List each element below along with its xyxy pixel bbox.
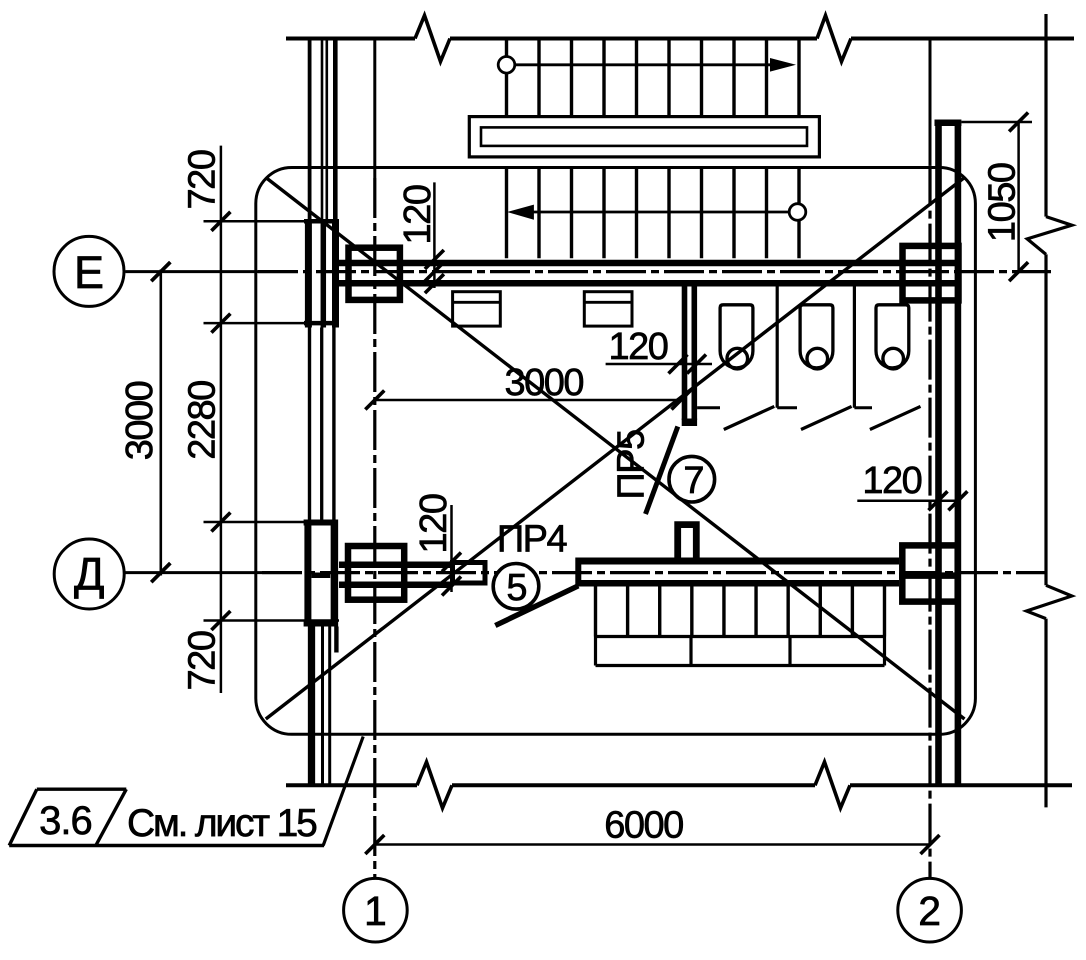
grid line 1 centerline — [373, 39, 376, 878]
svg-text:3000: 3000 — [505, 362, 584, 404]
column at D/2 — [902, 545, 957, 601]
dimension 1050 tick bottom — [1009, 262, 1028, 281]
svg-text:720: 720 — [182, 631, 224, 690]
dimension text 3000 (left) — [119, 381, 161, 460]
label PR5 — [611, 430, 653, 500]
stair landing slab (inner) — [481, 127, 807, 145]
stall divider 1 — [776, 287, 779, 408]
label PR4 — [497, 519, 568, 561]
svg-text:ПР5: ПР5 — [611, 430, 653, 500]
dimension 120 (right) line — [857, 500, 958, 503]
dimension 120 (bottom) tick 2 — [442, 577, 461, 596]
partition PR5: bottom end cap — [682, 419, 697, 427]
svg-text:1050: 1050 — [982, 163, 1024, 242]
dimension text 720 (top) — [182, 150, 224, 209]
stall front line segment 3 — [854, 406, 872, 409]
stair flight 2 direction arrow — [507, 204, 806, 221]
svg-text:5: 5 — [506, 567, 527, 609]
stall divider 2 — [853, 287, 856, 408]
grid line 2 centerline — [929, 38, 932, 878]
dimension text 120 (PR5) — [608, 326, 667, 368]
wall: pier cap at E band top — [304, 219, 339, 224]
wall: axis E interior wall top face line — [339, 260, 961, 267]
dimension 120 (top) line — [433, 182, 436, 288]
extension line y=522 — [204, 521, 333, 524]
column at D/1 — [348, 546, 404, 600]
edge: right fragment boundary line with break symbols — [1027, 14, 1072, 807]
dimension 3000 (left vertical) line — [160, 270, 163, 576]
tick left chain 2 — [211, 314, 230, 333]
dimension text 2280 — [182, 381, 224, 460]
panel: diagonal 1 — [266, 178, 965, 720]
dimension text 3000 (horizontal) — [505, 362, 584, 404]
svg-text:2280: 2280 — [182, 381, 224, 460]
dimension 120 (bottom) tick 1 — [442, 553, 461, 572]
svg-text:ПР4: ПР4 — [497, 519, 568, 561]
wall: left wall middle layer lines — [322, 39, 330, 786]
svg-text:120: 120 — [413, 494, 455, 553]
svg-text:2: 2 — [918, 888, 941, 934]
dimension 3000 (horizontal) tick right — [672, 391, 691, 410]
dimension 1050 line — [1017, 121, 1020, 272]
column at E/2 — [903, 246, 959, 301]
column at E/1 — [349, 248, 400, 300]
partition PR4: bottom face line — [578, 580, 899, 587]
dimension text 1050 — [982, 163, 1024, 242]
stair flight 2 treads — [507, 168, 800, 259]
wall: right wall inner line — [935, 123, 942, 786]
svg-text:Д: Д — [74, 549, 104, 600]
partition PR4: upstand stub (inverted U) — [678, 525, 697, 560]
grid circle D — [54, 539, 124, 609]
wall: bottom exterior wall edge with break symbols — [286, 762, 1072, 808]
dimension 6000 tick right — [921, 835, 940, 854]
svg-text:7: 7 — [683, 460, 704, 502]
axis D tick — [151, 563, 170, 582]
svg-text:120: 120 — [608, 326, 667, 368]
wall: left wall outer face line — [308, 39, 312, 786]
wall: right wall top end cap — [935, 119, 962, 126]
axis D centerline — [126, 571, 1047, 574]
stall front line segment 2 — [777, 406, 797, 409]
partition PR5: left face line — [682, 283, 688, 420]
svg-text:Е: Е — [74, 247, 104, 298]
dimension 1050 extension line — [961, 121, 1032, 124]
dimension 3000 (horizontal) tick left — [365, 391, 384, 410]
dimension 3000 (left) tick bottom — [151, 563, 170, 582]
wall: top exterior wall edge with break symbols — [286, 16, 1074, 62]
svg-text:1: 1 — [364, 888, 387, 934]
wall: pier cap at E band bottom — [304, 321, 339, 326]
wall: pier cap at D band bottom — [304, 620, 338, 627]
stair lower flight treads and landing joints — [596, 587, 885, 666]
stall door 2 (open leaf) — [801, 406, 852, 429]
dimension 120 (top) tick 2 — [425, 262, 444, 281]
partition PR4: left end cap — [575, 558, 581, 587]
svg-text:120: 120 — [862, 460, 921, 502]
dimension text 6000 — [604, 805, 683, 847]
urinal 1 — [720, 305, 753, 369]
wall: axis D left bar bottom line — [339, 581, 452, 588]
dimension chain line (left outer) — [220, 146, 223, 693]
svg-text:См. лист 15: См. лист 15 — [127, 802, 317, 845]
grid circle 2 — [898, 878, 962, 942]
wall: axis D left bar top line — [339, 561, 452, 568]
dimension text 120 (top) — [397, 185, 439, 244]
wall: axis D end rectangle — [453, 563, 486, 584]
svg-text:6000: 6000 — [604, 805, 683, 847]
dimension 120 (top) tick 1 — [425, 250, 444, 269]
grid circle E — [54, 236, 124, 306]
partition PR5: right face line — [691, 283, 697, 420]
wall: D pier internal line — [311, 573, 330, 579]
dimension 120 (right) tick 1 — [929, 491, 948, 510]
extension line y=620 — [204, 619, 340, 622]
wall: right wall outer line — [955, 123, 962, 786]
stall door 3 (open leaf) — [870, 406, 921, 429]
dimension 120 (PR5) line — [606, 363, 712, 366]
stall door 1 (open leaf) — [724, 406, 775, 429]
dimension 6000 tick left — [365, 835, 384, 854]
dimension 3000 (horizontal) line — [375, 399, 682, 402]
tick left chain 1 — [211, 212, 230, 231]
sink 1 — [453, 292, 501, 326]
svg-text:3.6: 3.6 — [39, 799, 92, 843]
dimension 120 (PR5) tick 1 — [669, 355, 688, 374]
svg-text:720: 720 — [182, 150, 224, 209]
dimension 120 (top) tick 3 — [425, 274, 444, 293]
dimension text 120 (right) — [862, 460, 921, 502]
urinal 3 — [876, 305, 909, 369]
title flag: reference mark 3.6 / see sheet 15 — [9, 737, 363, 846]
wall: axis E interior wall bottom face line — [339, 280, 961, 287]
svg-text:3000: 3000 — [119, 381, 161, 460]
leader to partition PR5 — [646, 427, 678, 515]
extension line y=323 — [204, 322, 333, 325]
extension line y=221 — [204, 220, 333, 223]
axis E centerline — [126, 270, 1052, 273]
tick left chain 4 — [211, 611, 230, 630]
stall front line segment 1 — [697, 406, 720, 409]
urinal 2 — [800, 305, 833, 369]
dimension 120 (bottom) line — [450, 505, 453, 592]
dimension 120 (PR5) tick 2 — [687, 355, 706, 374]
wall: left wall inner face line — [334, 39, 337, 653]
stair landing slab (outer) — [469, 117, 819, 157]
axis E tick — [151, 262, 170, 281]
stair flight 1 treads — [507, 40, 800, 115]
balloon 5 (element mark) — [493, 564, 539, 610]
dimension text 720 (bottom) — [182, 631, 224, 690]
leader to partition PR4 — [495, 586, 578, 626]
dimension 6000 line — [375, 843, 930, 846]
partition PR4: top face line — [578, 558, 899, 565]
panel: diagonal 2 — [266, 178, 965, 720]
dimension text 120 (bottom) — [413, 494, 455, 553]
svg-text:120: 120 — [397, 185, 439, 244]
dimension 120 (right) tick 2 — [948, 491, 967, 510]
panel: floor slab outline (rounded rectangle) — [256, 168, 976, 735]
sink 2 — [584, 292, 632, 326]
wall: axis D right column internal line — [899, 572, 961, 579]
grid circle 1 — [344, 878, 408, 942]
dimension 1050 tick top — [1009, 113, 1028, 132]
dimension 3000 (left) tick top — [151, 262, 170, 281]
balloon 7 (element mark) — [669, 456, 715, 502]
tick left chain 3 — [211, 513, 230, 532]
wall: pier cap at D band top — [304, 520, 338, 526]
stair flight 1 direction arrow — [498, 57, 796, 74]
